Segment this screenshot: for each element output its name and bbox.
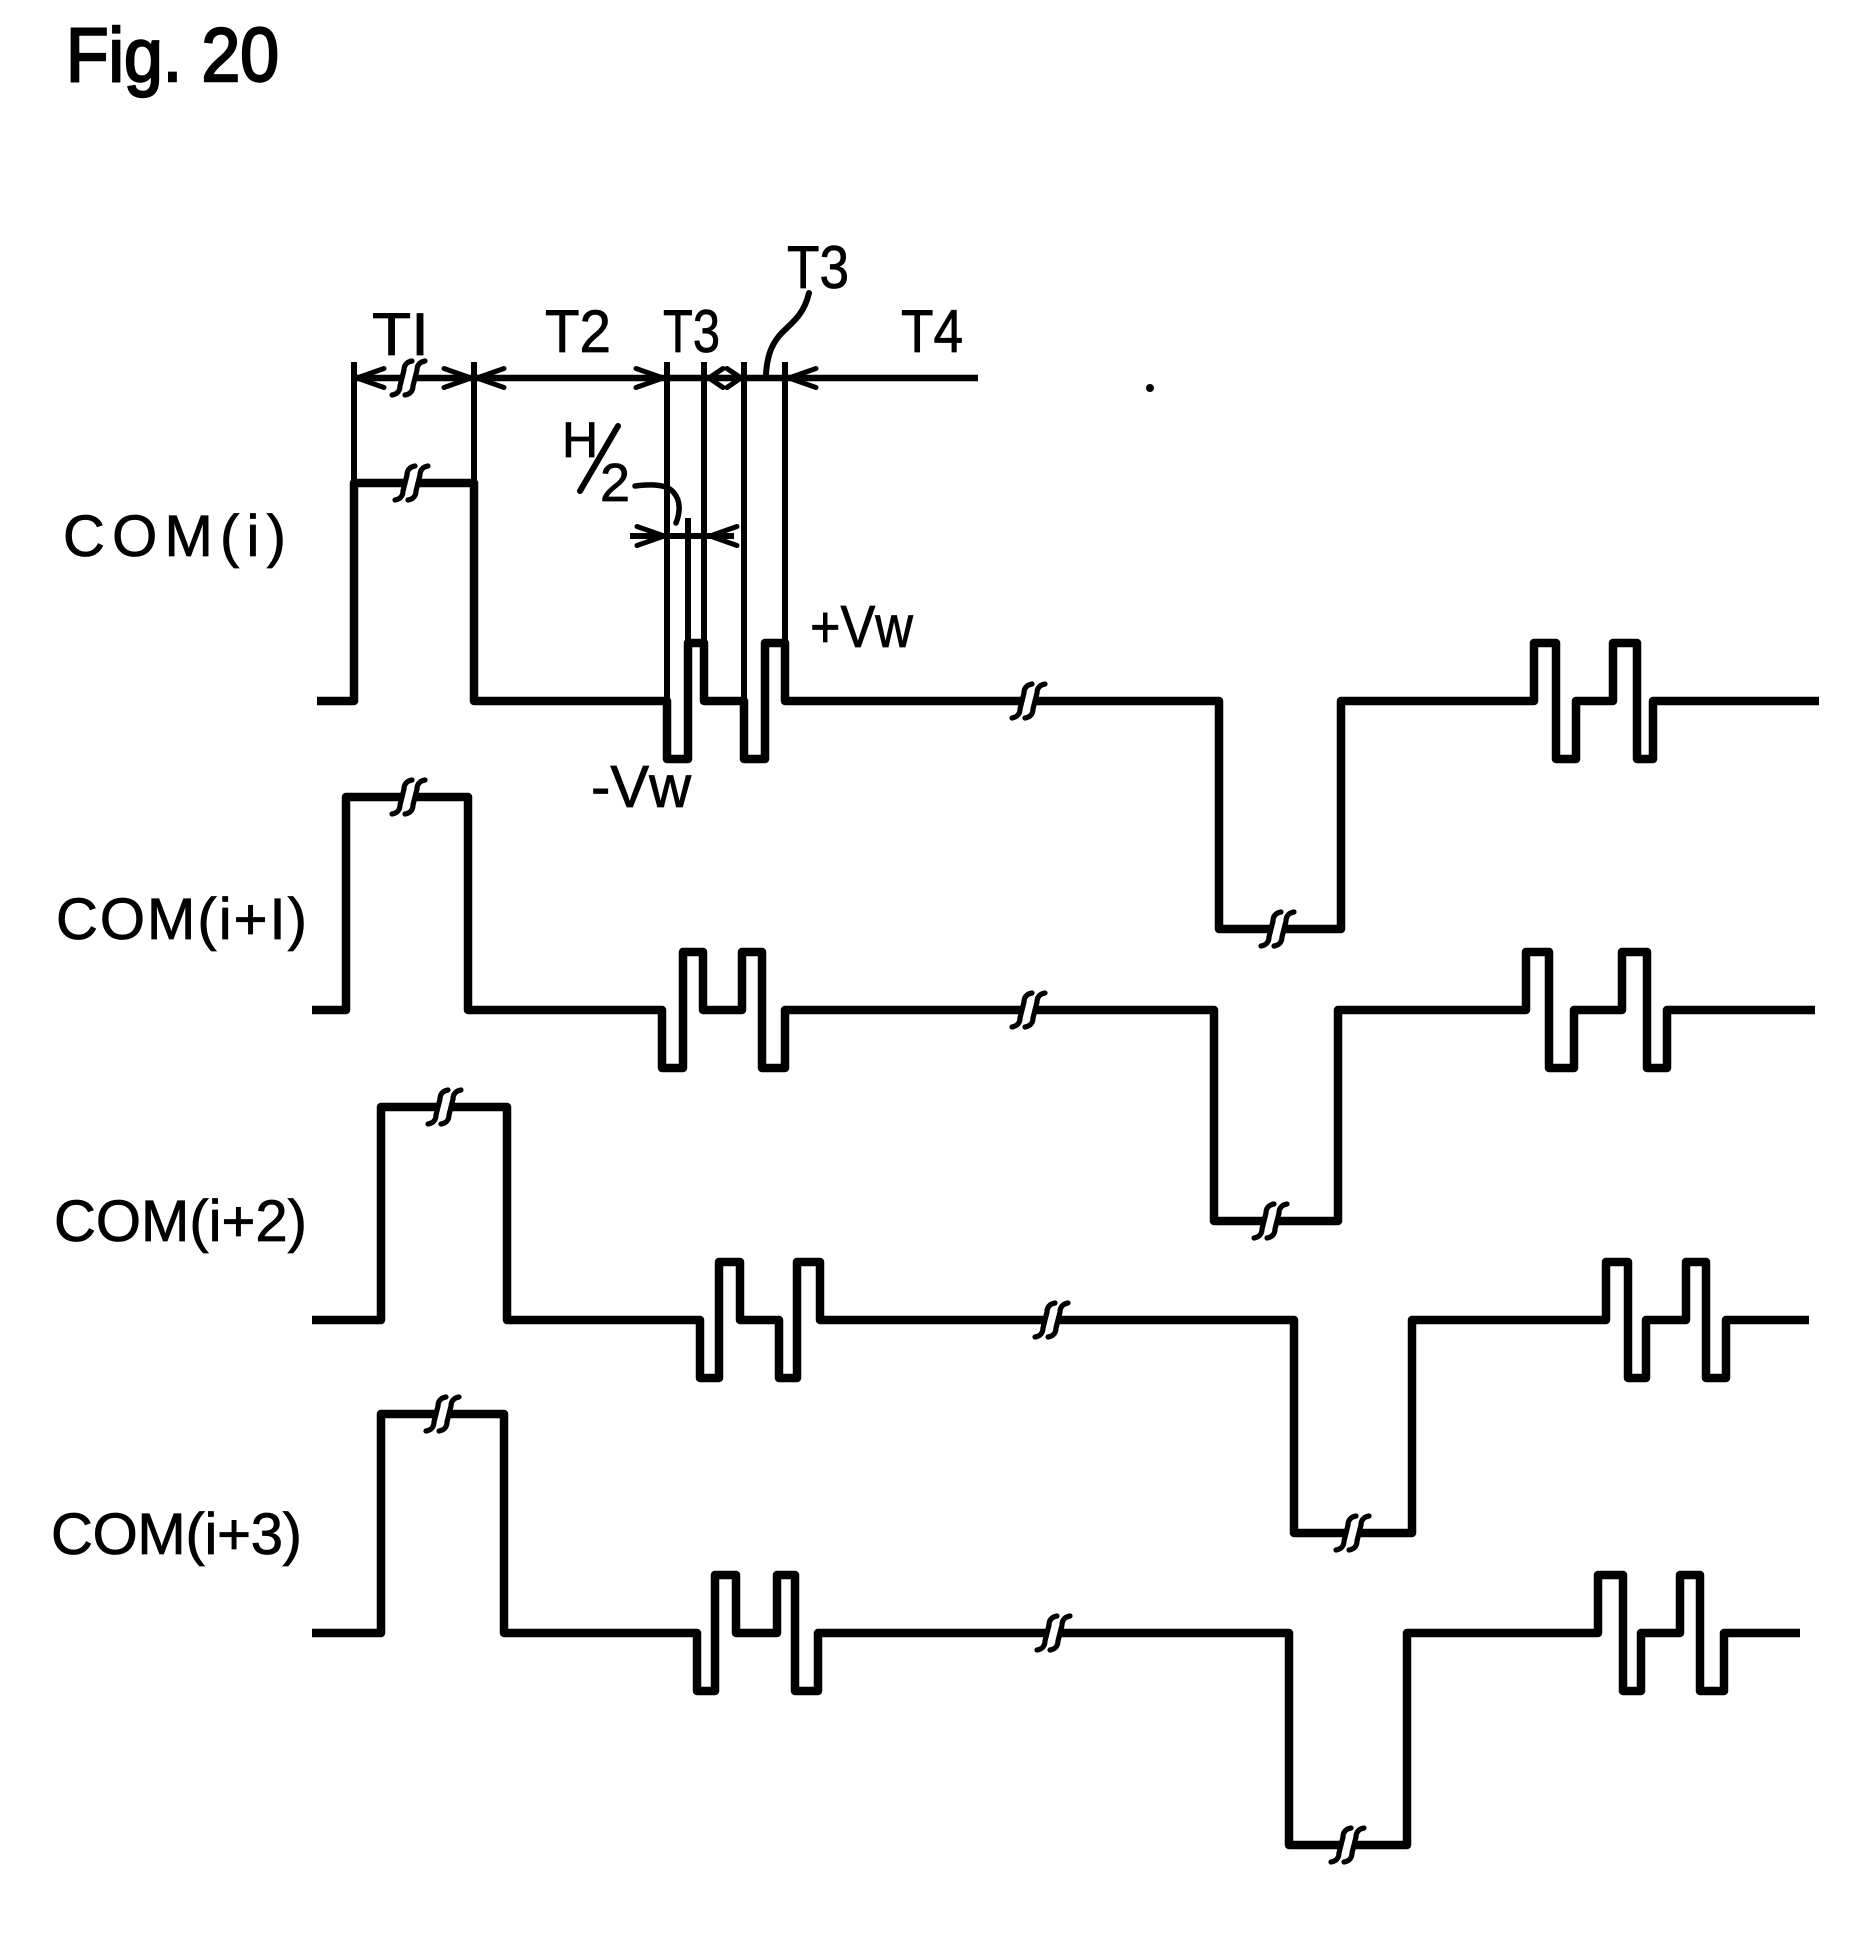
svg-text:T4: T4 [901,298,963,365]
dimension arrowheads [357,369,384,388]
ink speck [1146,384,1154,392]
dimension arrow line T1..T4 [354,375,978,382]
svg-text:TI: TI [372,301,429,368]
svg-text:COM(i+I): COM(i+I) [56,887,307,952]
svg-text:COM(i+3): COM(i+3) [51,1502,302,1567]
svg-text:T2: T2 [545,298,611,365]
svg-text:2: 2 [600,453,630,513]
svg-text:COM(i): COM(i) [63,504,286,569]
svg-text:T3: T3 [663,298,720,365]
leader from H/2 to pulse edge tick [635,485,679,523]
waveform COM(i+1) [312,797,1815,1221]
waveform COM(i) [317,483,1819,929]
waveform COM(i+2) [312,1107,1809,1533]
svg-text:-Vw: -Vw [591,754,691,820]
svg-text:T3: T3 [787,234,849,301]
H/2 tick on pulse edge [685,518,691,645]
waveform COM(i+3) [312,1414,1800,1845]
H/2 dimension line [630,533,734,539]
svg-text:H: H [562,412,598,468]
svg-text:Fig. 20: Fig. 20 [66,13,279,98]
svg-text:COM(i+2): COM(i+2) [54,1189,307,1254]
line-break squiggles [402,373,416,383]
svg-text:+Vw: +Vw [810,594,913,660]
extension lines [351,362,357,483]
leader from upper T3 to dimension line [766,293,809,374]
